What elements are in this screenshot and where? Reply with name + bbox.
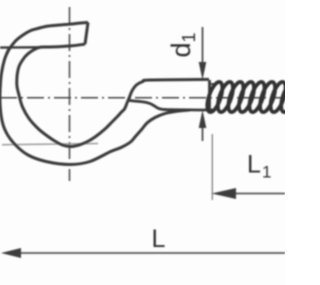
centerline horizontal	[0, 97, 285, 99]
d1 arrowhead up	[199, 110, 207, 128]
hook inner silhouette: shank top edge into eye inner curve	[17, 44, 209, 146]
neck hump edge	[129, 100, 210, 110]
L1 extension line	[211, 134, 213, 200]
svg-text:L: L	[247, 151, 261, 179]
L arrowhead left	[1, 248, 21, 258]
svg-text:1: 1	[262, 163, 271, 182]
L dimension line	[18, 252, 285, 254]
artifact line upper horizontal	[0, 46, 50, 49]
artifact faint line lower	[2, 144, 98, 145]
d1 dimension line upper	[202, 27, 204, 64]
hook outer silhouette: shank bottom edge into eye outer curve	[0, 22, 190, 164]
svg-text:L: L	[152, 225, 166, 253]
threads: tilted coil ellipses	[204, 80, 299, 114]
d1 dimension line lower	[202, 126, 204, 141]
L1 arrowhead left	[212, 188, 236, 199]
centerline vertical	[69, 7, 71, 181]
L1 dimension line	[232, 193, 285, 195]
hook tip flat cut	[85, 22, 88, 44]
thread root ticks	[210, 84, 216, 110]
thread start boundary	[208, 80, 211, 111]
d1 arrowhead down	[199, 62, 207, 80]
artifact diagonal at left edge	[1, 47, 10, 79]
